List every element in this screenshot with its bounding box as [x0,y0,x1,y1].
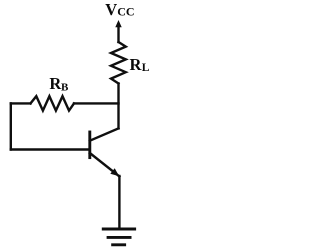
svg-text:R: R [130,55,143,74]
transistor Q1 [90,128,120,176]
label RL [130,55,150,74]
svg-text:B: B [61,81,69,93]
label RB [49,74,69,93]
wire left vertical [10,103,12,149]
svg-text:CC: CC [117,5,134,19]
resistor RB [31,96,75,110]
node VCC supply arrow [115,20,121,42]
svg-text:V: V [105,0,117,19]
wire collector node vertical [117,84,119,129]
ground [102,229,136,245]
wire RB top left horizontal [11,102,31,104]
wire RB to collector node [74,102,119,104]
wire emitter vertical [118,176,120,228]
resistor RL [111,42,126,84]
label VCC [105,0,134,19]
wire base horizontal [11,148,90,150]
svg-text:L: L [142,62,150,74]
